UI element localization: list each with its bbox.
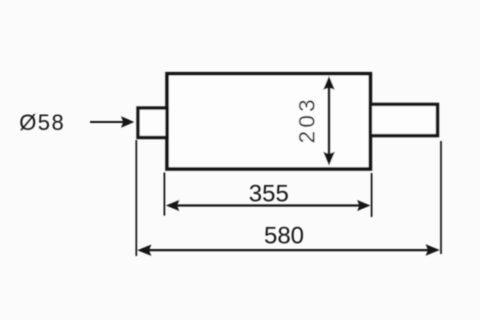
svg-text:580: 580 [264, 222, 304, 249]
leader arrow to inlet pipe [90, 121, 124, 123]
muffler body [167, 74, 370, 169]
arrowhead left (580) [137, 245, 151, 256]
arrowhead down [323, 152, 335, 166]
outlet pipe (right) [370, 104, 437, 135]
arrowhead left (355) [166, 200, 179, 211]
svg-text:203: 203 [294, 96, 319, 143]
arrowhead right (355) [357, 200, 370, 211]
extension line left (580) [135, 140, 137, 256]
svg-text:355: 355 [249, 180, 289, 207]
extension line right (580) [440, 141, 442, 254]
dimension 355 line [174, 204, 363, 206]
inlet pipe (left) [138, 108, 167, 138]
extension line right (355) [371, 173, 373, 217]
extension line left (355) [163, 173, 165, 216]
arrowhead up [323, 76, 335, 90]
svg-text:Ø58: Ø58 [19, 110, 65, 135]
dimension 580 line [146, 249, 431, 251]
dimension 203 vertical line [328, 79, 331, 163]
leader arrowhead [121, 116, 134, 128]
arrowhead right (580) [426, 244, 440, 255]
